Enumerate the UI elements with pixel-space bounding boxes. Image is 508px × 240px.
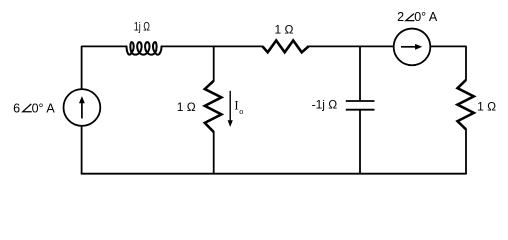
bottom rail wire <box>82 173 466 175</box>
current source I1 <box>64 89 101 126</box>
wire R2 to bottom rail <box>213 132 215 174</box>
svg-text:6: 6 <box>13 102 20 116</box>
wire R1 to I2 <box>309 45 394 47</box>
wire capacitor to bottom rail <box>359 111 361 174</box>
resistor R2 <box>205 81 222 132</box>
resistor R1 <box>263 41 309 53</box>
svg-text:1 Ω: 1 Ω <box>177 100 196 114</box>
wire node A to R2 <box>213 46 215 80</box>
resistor R3 <box>458 80 474 129</box>
svg-text:1 Ω: 1 Ω <box>477 99 496 113</box>
wire inductor to R1 <box>162 45 263 47</box>
label Io <box>234 99 243 116</box>
svg-text:-1j Ω: -1j Ω <box>312 97 338 111</box>
wire R3 to bottom rail <box>465 129 467 173</box>
svg-text:1 Ω: 1 Ω <box>275 23 294 37</box>
wire I2 to top-right corner down to R3 <box>430 46 466 80</box>
label 2 angle 0 deg A <box>397 10 438 24</box>
svg-text:o: o <box>239 107 243 116</box>
capacitor C1 <box>346 101 375 110</box>
svg-text:0° A: 0° A <box>32 102 56 116</box>
svg-text:2: 2 <box>397 10 404 24</box>
svg-text:1j Ω: 1j Ω <box>134 19 150 33</box>
current source I2 <box>394 29 431 66</box>
inductor L1 <box>127 42 162 55</box>
label 6 angle 0 deg A <box>13 102 55 116</box>
wire I1 to bottom rail <box>81 126 83 174</box>
current arrow Io <box>228 91 233 127</box>
svg-text:I: I <box>234 99 238 113</box>
svg-text:0° A: 0° A <box>414 10 438 24</box>
wire top-left corner <box>82 46 127 89</box>
wire node B to capacitor <box>359 46 361 100</box>
